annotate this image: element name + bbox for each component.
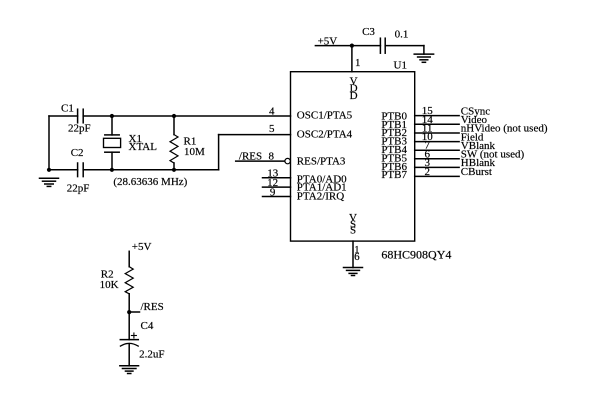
svg-text:6: 6 bbox=[354, 251, 360, 263]
svg-text:5: 5 bbox=[269, 123, 275, 135]
svg-text:OSC1/PTA5: OSC1/PTA5 bbox=[297, 110, 353, 122]
svg-text:10M: 10M bbox=[184, 146, 205, 158]
svg-text:22pF: 22pF bbox=[68, 123, 91, 135]
svg-text:S: S bbox=[350, 225, 356, 237]
svg-text:PTB7: PTB7 bbox=[381, 169, 407, 181]
svg-text:C3: C3 bbox=[362, 26, 375, 38]
svg-text:+5V: +5V bbox=[318, 35, 338, 47]
svg-text:9: 9 bbox=[270, 186, 276, 198]
svg-text:C1: C1 bbox=[61, 103, 74, 115]
svg-text:+5V: +5V bbox=[132, 241, 152, 253]
svg-text:2: 2 bbox=[424, 166, 430, 178]
svg-text:8: 8 bbox=[268, 151, 274, 163]
svg-text:PTA2/IRQ: PTA2/IRQ bbox=[297, 190, 344, 202]
svg-text:C4: C4 bbox=[141, 320, 154, 332]
svg-text:4: 4 bbox=[269, 106, 275, 118]
svg-text:D: D bbox=[350, 90, 358, 102]
svg-text:/RES: /RES bbox=[239, 151, 262, 163]
svg-text:OSC2/PTA4: OSC2/PTA4 bbox=[297, 128, 353, 140]
svg-text:22pF: 22pF bbox=[67, 182, 90, 194]
svg-text:U1: U1 bbox=[394, 59, 407, 71]
svg-text:10K: 10K bbox=[100, 279, 119, 291]
svg-text:1: 1 bbox=[355, 57, 361, 69]
svg-text:0.1: 0.1 bbox=[395, 29, 409, 41]
svg-text:/RES: /RES bbox=[141, 301, 164, 313]
svg-text:XTAL: XTAL bbox=[129, 141, 158, 153]
svg-text:RES/PTA3: RES/PTA3 bbox=[297, 155, 346, 167]
svg-text:C2: C2 bbox=[71, 147, 84, 159]
svg-text:2.2uF: 2.2uF bbox=[139, 349, 164, 361]
svg-text:68HC908QY4: 68HC908QY4 bbox=[381, 247, 451, 261]
svg-text:(28.63636 MHz): (28.63636 MHz) bbox=[113, 176, 187, 188]
svg-text:CBurst: CBurst bbox=[461, 166, 492, 178]
